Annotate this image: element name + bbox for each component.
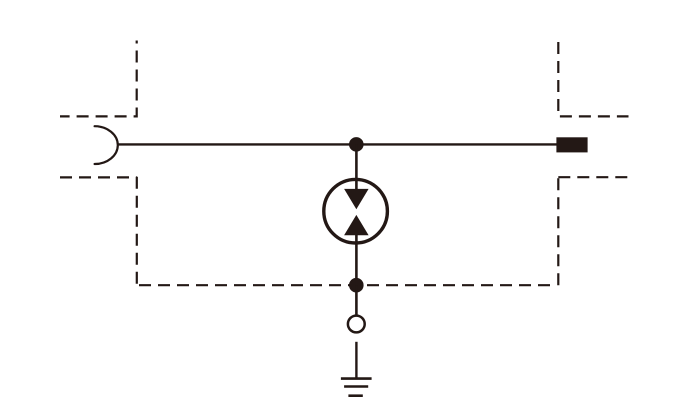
protection unit dashed enclosure: top-left segment: [60, 41, 137, 117]
ground bar 2: [344, 385, 368, 388]
wire: main horizontal line: [118, 143, 557, 145]
wire: node B down to earth terminal: [355, 285, 358, 315]
ground bar 3: [348, 394, 362, 397]
protection unit dashed enclosure: bottom-right stub: [558, 176, 628, 178]
arrester upper triangle (down): [344, 189, 369, 209]
protection unit dashed enclosure: bottom-left vertical: [136, 177, 138, 285]
protection unit dashed enclosure: bottom-left stub: [60, 176, 137, 178]
protection unit dashed enclosure: bottom run: [139, 284, 553, 286]
ground stem wire: [355, 342, 357, 379]
connector J1 input socket arc: [95, 126, 118, 164]
protection unit dashed enclosure: bottom-right vertical: [557, 178, 559, 285]
ground bar 1: [341, 377, 372, 380]
surge arrester SPD circle: [324, 179, 388, 243]
node A junction dot on main line: [349, 137, 364, 152]
wire: node A down to arrester: [355, 144, 358, 190]
terminal output solid block: [556, 137, 587, 152]
wire: arrester down to node B: [355, 234, 358, 285]
earth terminal open circle: [348, 316, 365, 333]
arrester lower triangle (up): [344, 215, 369, 235]
node B junction dot on bottom dashed line: [349, 278, 364, 293]
protection unit dashed enclosure: top-right segment: [558, 42, 628, 116]
